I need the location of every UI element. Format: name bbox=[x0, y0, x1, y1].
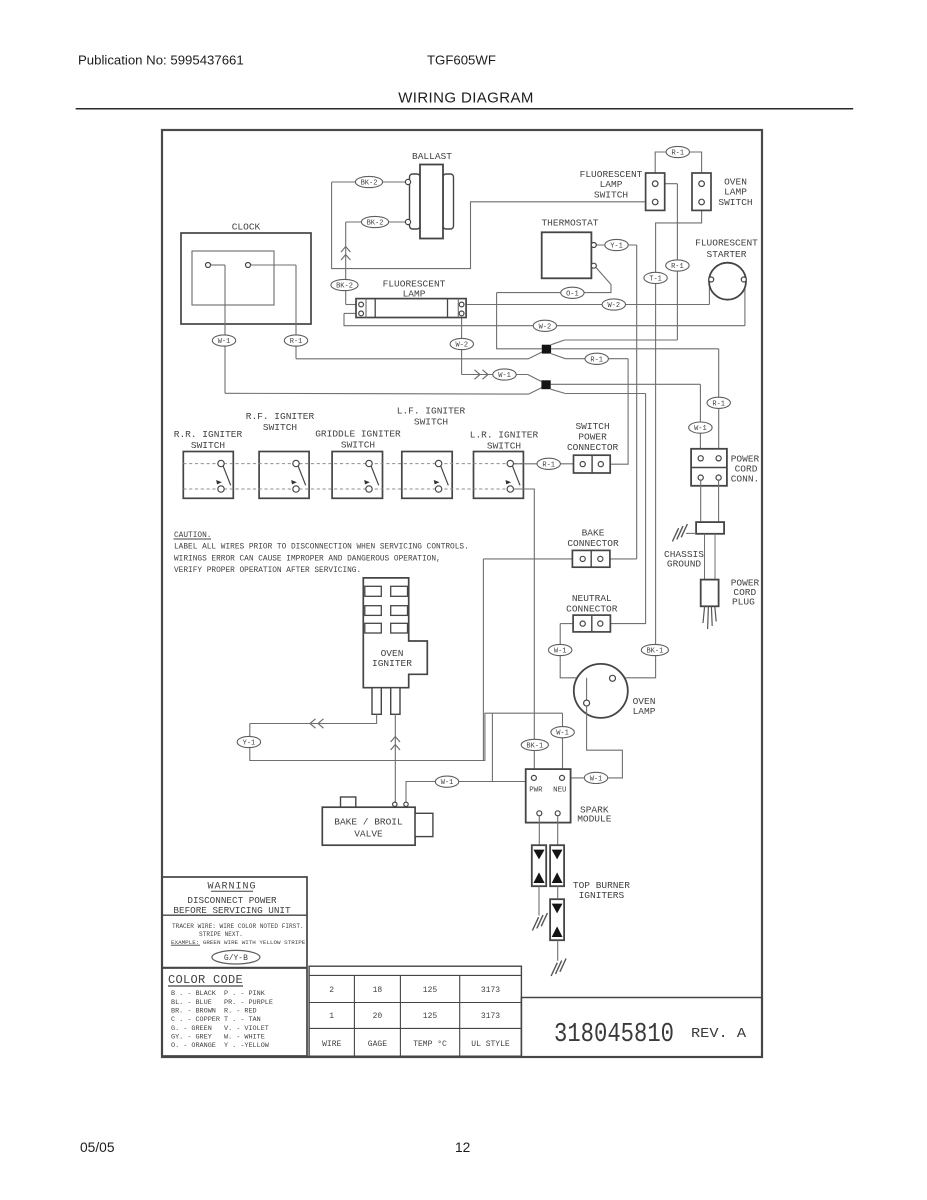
wire R-1 L.R. switch to switch power connector bbox=[514, 463, 574, 465]
svg-text:IGNITERS: IGNITERS bbox=[579, 890, 625, 901]
node W-1 bbox=[551, 727, 574, 738]
junction 1 (solder square) bbox=[542, 345, 551, 354]
igniter switch 4 lever bbox=[441, 466, 449, 485]
svg-text:WIRE: WIRE bbox=[322, 1040, 341, 1049]
fluorescent lamp body bbox=[356, 299, 466, 318]
svg-text:BALLAST: BALLAST bbox=[412, 151, 452, 162]
clock inner body bbox=[192, 251, 274, 305]
wire ballast bottom terminal bbox=[346, 221, 406, 223]
svg-text:R-1: R-1 bbox=[590, 356, 603, 364]
svg-text:T-1: T-1 bbox=[649, 275, 662, 283]
node W-1 bbox=[689, 422, 712, 433]
wire Y-1 from thermostat upper terminal bbox=[596, 244, 636, 246]
svg-text:SWITCH: SWITCH bbox=[341, 440, 375, 451]
wire W-1 drop to power cord conn bbox=[699, 384, 701, 456]
svg-text:BR. - BROWN: BR. - BROWN bbox=[171, 1008, 216, 1016]
ground below igniter C bbox=[551, 959, 566, 977]
svg-text:WIRING DIAGRAM: WIRING DIAGRAM bbox=[398, 90, 534, 107]
svg-text:R-1: R-1 bbox=[290, 338, 303, 346]
svg-text:W-2: W-2 bbox=[455, 342, 468, 350]
wire ballast top terminal to BK-2 run bbox=[332, 181, 406, 183]
color code underline bbox=[168, 985, 243, 987]
lamp pin right top bbox=[459, 302, 464, 307]
wire from fluorescent lamp switch top contact bbox=[658, 183, 677, 185]
svg-text:IGNITER: IGNITER bbox=[372, 658, 412, 669]
node W-2 bbox=[533, 320, 556, 331]
wire continuation chevrons bbox=[391, 737, 400, 743]
fluorescent lamp switch contact top bbox=[652, 181, 658, 187]
fluorescent lamp switch body bbox=[646, 173, 665, 210]
thermostat terminal lower bbox=[591, 263, 596, 268]
wire igniter B to igniter C bbox=[557, 886, 559, 899]
svg-text:W-2: W-2 bbox=[607, 302, 620, 310]
node O-1 bbox=[561, 287, 584, 298]
table divider col1 bbox=[353, 975, 355, 1056]
svg-text:EXAMPLE: GREEN WIRE WITH YELLO: EXAMPLE: GREEN WIRE WITH YELLOW STRIPE bbox=[171, 939, 306, 946]
top burner igniter C bbox=[550, 899, 564, 940]
wire strain relief to chassis ground bbox=[686, 532, 696, 534]
wire W-2 lamp right top to starter left bbox=[464, 304, 709, 306]
wire R-1 junction 1 to power cord conn riser bbox=[551, 348, 719, 350]
ballast right lobe bbox=[443, 174, 454, 229]
node Y-1 bbox=[605, 239, 628, 250]
bake broil valve body bbox=[322, 807, 415, 845]
wire W-1 neutral connector to oven lamp bbox=[560, 624, 586, 701]
wire R-1 from clock to junction 1 bbox=[296, 358, 529, 360]
wire drop from starter right terminal bbox=[744, 282, 746, 326]
clock terminal right bbox=[246, 263, 251, 268]
svg-text:VALVE: VALVE bbox=[354, 829, 383, 840]
ballast left lobe bbox=[410, 174, 421, 229]
table line mid2 bbox=[309, 1027, 521, 1029]
node W-1 bbox=[493, 369, 516, 380]
wire spark output 2 to igniter B bbox=[557, 816, 559, 845]
power cord conn pin 1 bbox=[698, 456, 703, 461]
top burner igniter A bbox=[532, 845, 546, 886]
svg-text:BAKE / BROIL: BAKE / BROIL bbox=[334, 817, 403, 828]
wire bake connector left lead bbox=[483, 558, 572, 560]
svg-text:TGF605WF: TGF605WF bbox=[427, 53, 496, 68]
oven igniter prong left bbox=[372, 688, 381, 715]
svg-text:FLUORESCENT: FLUORESCENT bbox=[695, 238, 758, 249]
power cord plug prongs bbox=[703, 606, 716, 629]
svg-text:R-1: R-1 bbox=[671, 263, 684, 271]
svg-text:20: 20 bbox=[373, 1012, 383, 1021]
svg-text:W-1: W-1 bbox=[498, 372, 511, 380]
oven igniter prong right bbox=[391, 688, 400, 715]
lamp inner line left bbox=[374, 299, 376, 318]
svg-text:CONN.: CONN. bbox=[731, 474, 760, 485]
svg-text:18: 18 bbox=[373, 986, 383, 995]
wire W-1 oven lamp loop to spark module NEU bbox=[565, 706, 622, 778]
svg-text:GY. - GREY: GY. - GREY bbox=[171, 1034, 212, 1042]
wire diagonal into junction 2 upper-left bbox=[528, 375, 542, 382]
svg-text:SWITCH: SWITCH bbox=[191, 440, 225, 451]
dashed gang line top bbox=[183, 463, 523, 465]
svg-text:SWITCH: SWITCH bbox=[263, 422, 297, 433]
switch power connector divider bbox=[591, 455, 593, 473]
clock terminal left bbox=[206, 263, 211, 268]
oven igniter slot L2 bbox=[365, 606, 382, 616]
junction 2 (solder square) bbox=[541, 380, 550, 389]
chassis ground hatch bbox=[672, 524, 687, 542]
svg-text:05/05: 05/05 bbox=[80, 1140, 115, 1155]
power cord conn pin 4 bbox=[716, 475, 721, 480]
svg-text:W-1: W-1 bbox=[590, 775, 603, 783]
title underline rule bbox=[76, 108, 854, 110]
node R-1 bbox=[537, 458, 560, 469]
svg-text:P . - PINK: P . - PINK bbox=[224, 990, 266, 998]
fluorescent starter body bbox=[709, 263, 746, 300]
switch power connector body bbox=[574, 455, 611, 473]
svg-text:Y-1: Y-1 bbox=[243, 740, 256, 748]
svg-text:GRIDDLE IGNITER: GRIDDLE IGNITER bbox=[315, 429, 401, 440]
igniter switch 2 contact top bbox=[293, 460, 299, 466]
svg-text:CONNECTOR: CONNECTOR bbox=[567, 538, 619, 549]
oven igniter body bbox=[363, 578, 427, 688]
tracer example tag G/Y-B bbox=[212, 950, 260, 964]
wire Y-1 long drop to bake connector bbox=[636, 245, 638, 559]
svg-text:L.F. IGNITER: L.F. IGNITER bbox=[397, 406, 466, 417]
svg-text:STRIPE NEXT.: STRIPE NEXT. bbox=[199, 931, 243, 938]
igniter switch 2 lever bbox=[298, 466, 306, 485]
spark module output 2 bbox=[555, 811, 560, 816]
svg-text:Y-1: Y-1 bbox=[610, 243, 623, 251]
svg-text:125: 125 bbox=[423, 986, 438, 995]
node R-1 bbox=[284, 335, 307, 346]
igniter switch 4 body bbox=[402, 452, 452, 499]
lamp end cap line right bbox=[457, 299, 459, 318]
svg-text:T . - TAN: T . - TAN bbox=[224, 1016, 261, 1024]
spark module body bbox=[526, 769, 571, 823]
svg-text:R-1: R-1 bbox=[542, 461, 555, 469]
wire lamp left bottom stub bbox=[344, 312, 358, 314]
power cord plug body bbox=[701, 580, 719, 607]
igniter switch 1 contact bottom bbox=[218, 486, 224, 492]
svg-text:SWITCH: SWITCH bbox=[594, 190, 628, 201]
node W-1 bbox=[549, 644, 572, 655]
wire W-1 valve to spark module left side bbox=[406, 782, 526, 803]
wire to neutral connector riser bbox=[565, 393, 645, 395]
svg-text:COLOR CODE: COLOR CODE bbox=[168, 973, 243, 987]
igniter switch 2 body bbox=[259, 452, 309, 499]
igniter switch 5 contact top bbox=[507, 460, 513, 466]
svg-text:W-1: W-1 bbox=[441, 779, 454, 787]
power cord conn pin 3 bbox=[698, 475, 703, 480]
wire inside oven lamp to lower contact bbox=[586, 678, 588, 701]
wire R-1 linking both lamp switch tops bbox=[655, 152, 701, 181]
thermostat terminal upper bbox=[591, 243, 596, 248]
svg-text:W-1: W-1 bbox=[218, 338, 231, 346]
oven lamp contact right bbox=[610, 675, 616, 681]
wire igniter C to ground bbox=[557, 940, 559, 961]
svg-text:CONNECTOR: CONNECTOR bbox=[567, 442, 619, 453]
wire W-2 drop from lamp right bottom bbox=[461, 316, 463, 375]
dashed gang line bottom bbox=[183, 488, 523, 490]
wire W-1 from clock to junction 2 bbox=[225, 392, 529, 395]
node BK-1 bbox=[641, 644, 668, 655]
svg-text:LAMP: LAMP bbox=[633, 706, 656, 717]
svg-text:PLUG: PLUG bbox=[732, 597, 755, 608]
wire igniter A to ground bbox=[538, 886, 540, 915]
cord strain relief bar bbox=[696, 522, 724, 534]
switch power connector pin 2 bbox=[598, 462, 603, 467]
switch power connector pin 1 bbox=[580, 462, 585, 467]
wire R-1 drop to power cord conn bbox=[718, 349, 720, 456]
wire BK-2 drop to lamp bbox=[345, 222, 347, 305]
svg-text:PR. - PURPLE: PR. - PURPLE bbox=[224, 999, 273, 1007]
svg-text:SWITCH: SWITCH bbox=[414, 417, 448, 428]
wire diagonal into junction 2 lower-left bbox=[529, 388, 543, 395]
svg-text:NEUTRAL: NEUTRAL bbox=[572, 593, 612, 604]
svg-text:3173: 3173 bbox=[481, 986, 500, 995]
caution heading underline bbox=[174, 538, 212, 540]
panel divider 1 bbox=[162, 914, 307, 916]
igniter switch 3 contact top bbox=[366, 460, 372, 466]
ballast core bbox=[420, 165, 443, 239]
wire continuation chevrons bbox=[475, 370, 481, 379]
svg-text:318045810: 318045810 bbox=[554, 1020, 674, 1050]
neutral connector pin 1 bbox=[580, 621, 585, 626]
svg-text:SWITCH: SWITCH bbox=[575, 421, 609, 432]
wire continuation chevrons bbox=[310, 719, 316, 728]
igniter switch 2 contact bottom bbox=[293, 486, 299, 492]
node BK-1 bbox=[521, 739, 548, 750]
igniter switch 4 contact top bbox=[435, 460, 441, 466]
wire diagonal into junction 1 lower-left bbox=[529, 352, 543, 359]
svg-text:BK-2: BK-2 bbox=[367, 220, 384, 228]
starter terminal left bbox=[709, 277, 714, 282]
igniter switch 5 contact bottom bbox=[507, 486, 513, 492]
svg-text:O-1: O-1 bbox=[566, 290, 579, 298]
wire power cord conn to strain relief right bbox=[718, 480, 720, 522]
svg-text:1: 1 bbox=[329, 1012, 334, 1021]
valve terminal left bbox=[393, 802, 397, 806]
bake connector divider bbox=[590, 550, 592, 567]
warning title underline bbox=[211, 890, 253, 892]
wire clock left contact to riser bbox=[211, 264, 226, 266]
wire power cord conn to strain relief left bbox=[700, 480, 702, 522]
svg-text:O. - ORANGE: O. - ORANGE bbox=[171, 1042, 216, 1050]
node T-1 bbox=[644, 272, 667, 283]
svg-text:G. - GREEN: G. - GREEN bbox=[171, 1025, 212, 1033]
wire diagonal junction 1 upper-right bbox=[551, 340, 564, 345]
table divider col2 bbox=[399, 975, 401, 1056]
power cord connector divider bbox=[691, 467, 727, 469]
oven igniter slot R2 bbox=[391, 606, 408, 616]
svg-text:THERMOSTAT: THERMOSTAT bbox=[541, 218, 598, 229]
clock outer case bbox=[181, 233, 311, 324]
svg-text:BL. - BLUE: BL. - BLUE bbox=[171, 999, 212, 1007]
svg-text:W-1: W-1 bbox=[694, 425, 707, 433]
svg-text:TRACER WIRE: WIRE COLOR NOTED: TRACER WIRE: WIRE COLOR NOTED FIRST. bbox=[172, 923, 304, 930]
svg-text:NEU: NEU bbox=[553, 787, 566, 795]
EXAMPLE underline bbox=[171, 944, 200, 946]
svg-text:125: 125 bbox=[423, 1012, 438, 1021]
spark module PWR terminal bbox=[531, 775, 536, 780]
valve terminal right bbox=[404, 802, 408, 806]
neutral connector divider bbox=[591, 615, 593, 632]
lamp pin left top bbox=[359, 302, 364, 307]
wire R-1 drop to junction 1 branch bbox=[676, 184, 678, 340]
node BK-2 bbox=[361, 216, 388, 227]
power cord wire left bbox=[704, 534, 706, 580]
node W-1 bbox=[435, 776, 458, 787]
svg-text:12: 12 bbox=[455, 1140, 470, 1155]
wire R-1 riser from clock bbox=[295, 265, 297, 359]
svg-text:REV. A: REV. A bbox=[691, 1026, 747, 1042]
svg-text:R-1: R-1 bbox=[712, 400, 725, 408]
svg-text:BK-2: BK-2 bbox=[361, 180, 378, 188]
svg-text:UL STYLE: UL STYLE bbox=[471, 1040, 510, 1049]
svg-text:Publication No: 5995437661: Publication No: 5995437661 bbox=[78, 53, 244, 68]
igniter switch 4 contact bottom bbox=[435, 486, 441, 492]
svg-text:B . - BLACK: B . - BLACK bbox=[171, 990, 217, 998]
wire neutral connector left lead bbox=[560, 623, 573, 625]
node W-1 bbox=[212, 335, 235, 346]
svg-text:R.F. IGNITER: R.F. IGNITER bbox=[246, 411, 315, 422]
starter terminal right bbox=[741, 277, 746, 282]
lamp pin right bottom bbox=[459, 311, 464, 316]
node W-2 bbox=[602, 299, 625, 310]
table line mid1 bbox=[309, 1002, 521, 1004]
wire clock right contact to riser bbox=[251, 264, 297, 266]
spark module NEU terminal bbox=[560, 775, 565, 780]
svg-text:G/Y-B: G/Y-B bbox=[224, 954, 248, 963]
node R-1 bbox=[666, 260, 689, 271]
svg-text:GROUND: GROUND bbox=[667, 559, 702, 570]
svg-text:BK-1: BK-1 bbox=[646, 648, 663, 656]
oven igniter slot L1 bbox=[365, 586, 382, 596]
svg-text:CLOCK: CLOCK bbox=[232, 222, 261, 233]
svg-text:R-1: R-1 bbox=[671, 150, 684, 158]
igniter switch 5 body bbox=[474, 452, 524, 499]
svg-text:3173: 3173 bbox=[481, 1012, 500, 1021]
power cord connector body bbox=[691, 449, 727, 486]
bake connector pin 2 bbox=[598, 556, 603, 561]
svg-text:C . - COPPER: C . - COPPER bbox=[171, 1016, 220, 1024]
wire drop into neutral connector bbox=[603, 394, 646, 624]
oven lamp switch contact top bbox=[699, 181, 705, 187]
igniter switch 3 lever bbox=[371, 466, 379, 485]
wire R-1 drop into switch power connector bbox=[603, 359, 628, 465]
table divider col3 bbox=[459, 975, 461, 1056]
svg-text:R.R. IGNITER: R.R. IGNITER bbox=[174, 429, 243, 440]
bake connector pin 1 bbox=[580, 556, 585, 561]
wire W-2 under-lamp run to starter right bbox=[344, 313, 745, 325]
svg-text:SWITCH: SWITCH bbox=[487, 441, 521, 452]
igniter switch 3 body bbox=[332, 452, 382, 499]
power cord conn pin 2 bbox=[716, 456, 721, 461]
lamp inner line right bbox=[447, 299, 449, 318]
wire W-1 run to junction 2 bbox=[462, 374, 528, 376]
oven lamp bulb bbox=[574, 664, 628, 718]
node BK-2 bbox=[331, 279, 358, 290]
valve top tab bbox=[341, 797, 356, 807]
warning and color code panel bbox=[162, 877, 307, 1056]
table line top bbox=[309, 974, 521, 976]
svg-text:W-1: W-1 bbox=[554, 648, 567, 656]
wire diagonal junction 1 lower-right bbox=[551, 354, 565, 359]
igniter switch 3 contact bottom bbox=[366, 486, 372, 492]
neutral connector pin 2 bbox=[598, 621, 603, 626]
wire branch down to valve run bbox=[491, 713, 493, 781]
wire diagonal junction 2 lower-right bbox=[551, 389, 566, 393]
wire Y-1 run to spark module NEU riser bbox=[250, 713, 563, 760]
thermostat body bbox=[542, 232, 592, 278]
panel divider 2 bbox=[162, 967, 307, 969]
igniter switch 1 lever bbox=[223, 466, 231, 485]
wire BK-2 ballast loop to fluorescent lamp switch bbox=[332, 182, 653, 269]
svg-text:MODULE: MODULE bbox=[577, 814, 612, 825]
wire O-1 down and into junction 1 bbox=[497, 293, 542, 349]
wire Y-1 from oven igniter left prong bbox=[250, 714, 377, 723]
svg-text:Y . -YELLOW: Y . -YELLOW bbox=[224, 1042, 270, 1050]
svg-text:PWR: PWR bbox=[529, 787, 543, 795]
wire R-1 horizontal into junction 1 bbox=[565, 339, 678, 341]
top burner igniter B bbox=[550, 845, 564, 886]
wire continuation chevrons bbox=[341, 247, 350, 253]
igniter switch 1 body bbox=[183, 452, 233, 499]
svg-text:BK-1: BK-1 bbox=[526, 742, 543, 750]
oven igniter slot L3 bbox=[365, 623, 382, 633]
wire bake connector right lead to Y-1 riser bbox=[603, 558, 637, 560]
bake connector body bbox=[572, 550, 610, 567]
node Y-1 bbox=[237, 736, 260, 747]
node R-1 bbox=[585, 353, 608, 364]
neutral connector body bbox=[573, 615, 610, 632]
spark module output 1 bbox=[537, 811, 542, 816]
oven igniter slot R3 bbox=[391, 623, 408, 633]
oven lamp switch contact bottom bbox=[699, 199, 705, 205]
ballast terminal 1 bbox=[405, 179, 410, 184]
svg-text:VERIFY PROPER OPERATION AFTER: VERIFY PROPER OPERATION AFTER SERVICING. bbox=[174, 567, 361, 575]
ballast terminal 2 bbox=[405, 219, 410, 224]
power cord wire right bbox=[714, 534, 716, 580]
igniter switch 5 lever bbox=[513, 466, 521, 485]
oven lamp switch body bbox=[692, 173, 711, 210]
oven lamp contact left bbox=[584, 700, 590, 706]
oven igniter slot R1 bbox=[391, 586, 408, 596]
svg-text:L.R. IGNITER: L.R. IGNITER bbox=[470, 430, 539, 441]
wire spark output 1 to igniter A bbox=[538, 816, 540, 845]
node BK-2 bbox=[355, 176, 382, 187]
wire riser to starter left terminal bbox=[708, 282, 710, 305]
svg-text:W-2: W-2 bbox=[539, 323, 552, 331]
wire T-1/BK-1 drop from oven lamp switch to oven lamp bbox=[616, 205, 702, 678]
wire drop from bake connector to Y-1 run bbox=[482, 559, 484, 761]
wire W-1 riser into NEU bbox=[562, 713, 564, 775]
svg-text:SWITCH: SWITCH bbox=[718, 197, 752, 208]
svg-text:R. - RED: R. - RED bbox=[224, 1008, 257, 1016]
wire R-1 to switch power connector riser bbox=[565, 358, 628, 360]
node W-2 bbox=[450, 338, 473, 349]
valve right tab bbox=[415, 813, 433, 836]
wire stub into lamp left top terminal bbox=[346, 304, 359, 306]
svg-text:GAGE: GAGE bbox=[368, 1040, 387, 1049]
svg-text:BEFORE SERVICING UNIT: BEFORE SERVICING UNIT bbox=[173, 905, 291, 916]
svg-text:V. - VIOLET: V. - VIOLET bbox=[224, 1025, 269, 1033]
svg-text:CONNECTOR: CONNECTOR bbox=[566, 604, 618, 615]
node R-1 bbox=[707, 397, 730, 408]
ground below igniter A bbox=[532, 913, 547, 931]
node R-1 bbox=[666, 146, 689, 157]
wire W-1 riser from clock bbox=[224, 265, 226, 393]
svg-text:WIRINGS ERROR CAN CAUSE IMPROP: WIRINGS ERROR CAN CAUSE IMPROPER AND DAN… bbox=[174, 555, 441, 563]
svg-text:TEMP °C: TEMP °C bbox=[413, 1040, 447, 1049]
svg-text:STARTER: STARTER bbox=[707, 249, 747, 260]
wire BK-1 from switch row to spark module PWR bbox=[514, 489, 535, 775]
